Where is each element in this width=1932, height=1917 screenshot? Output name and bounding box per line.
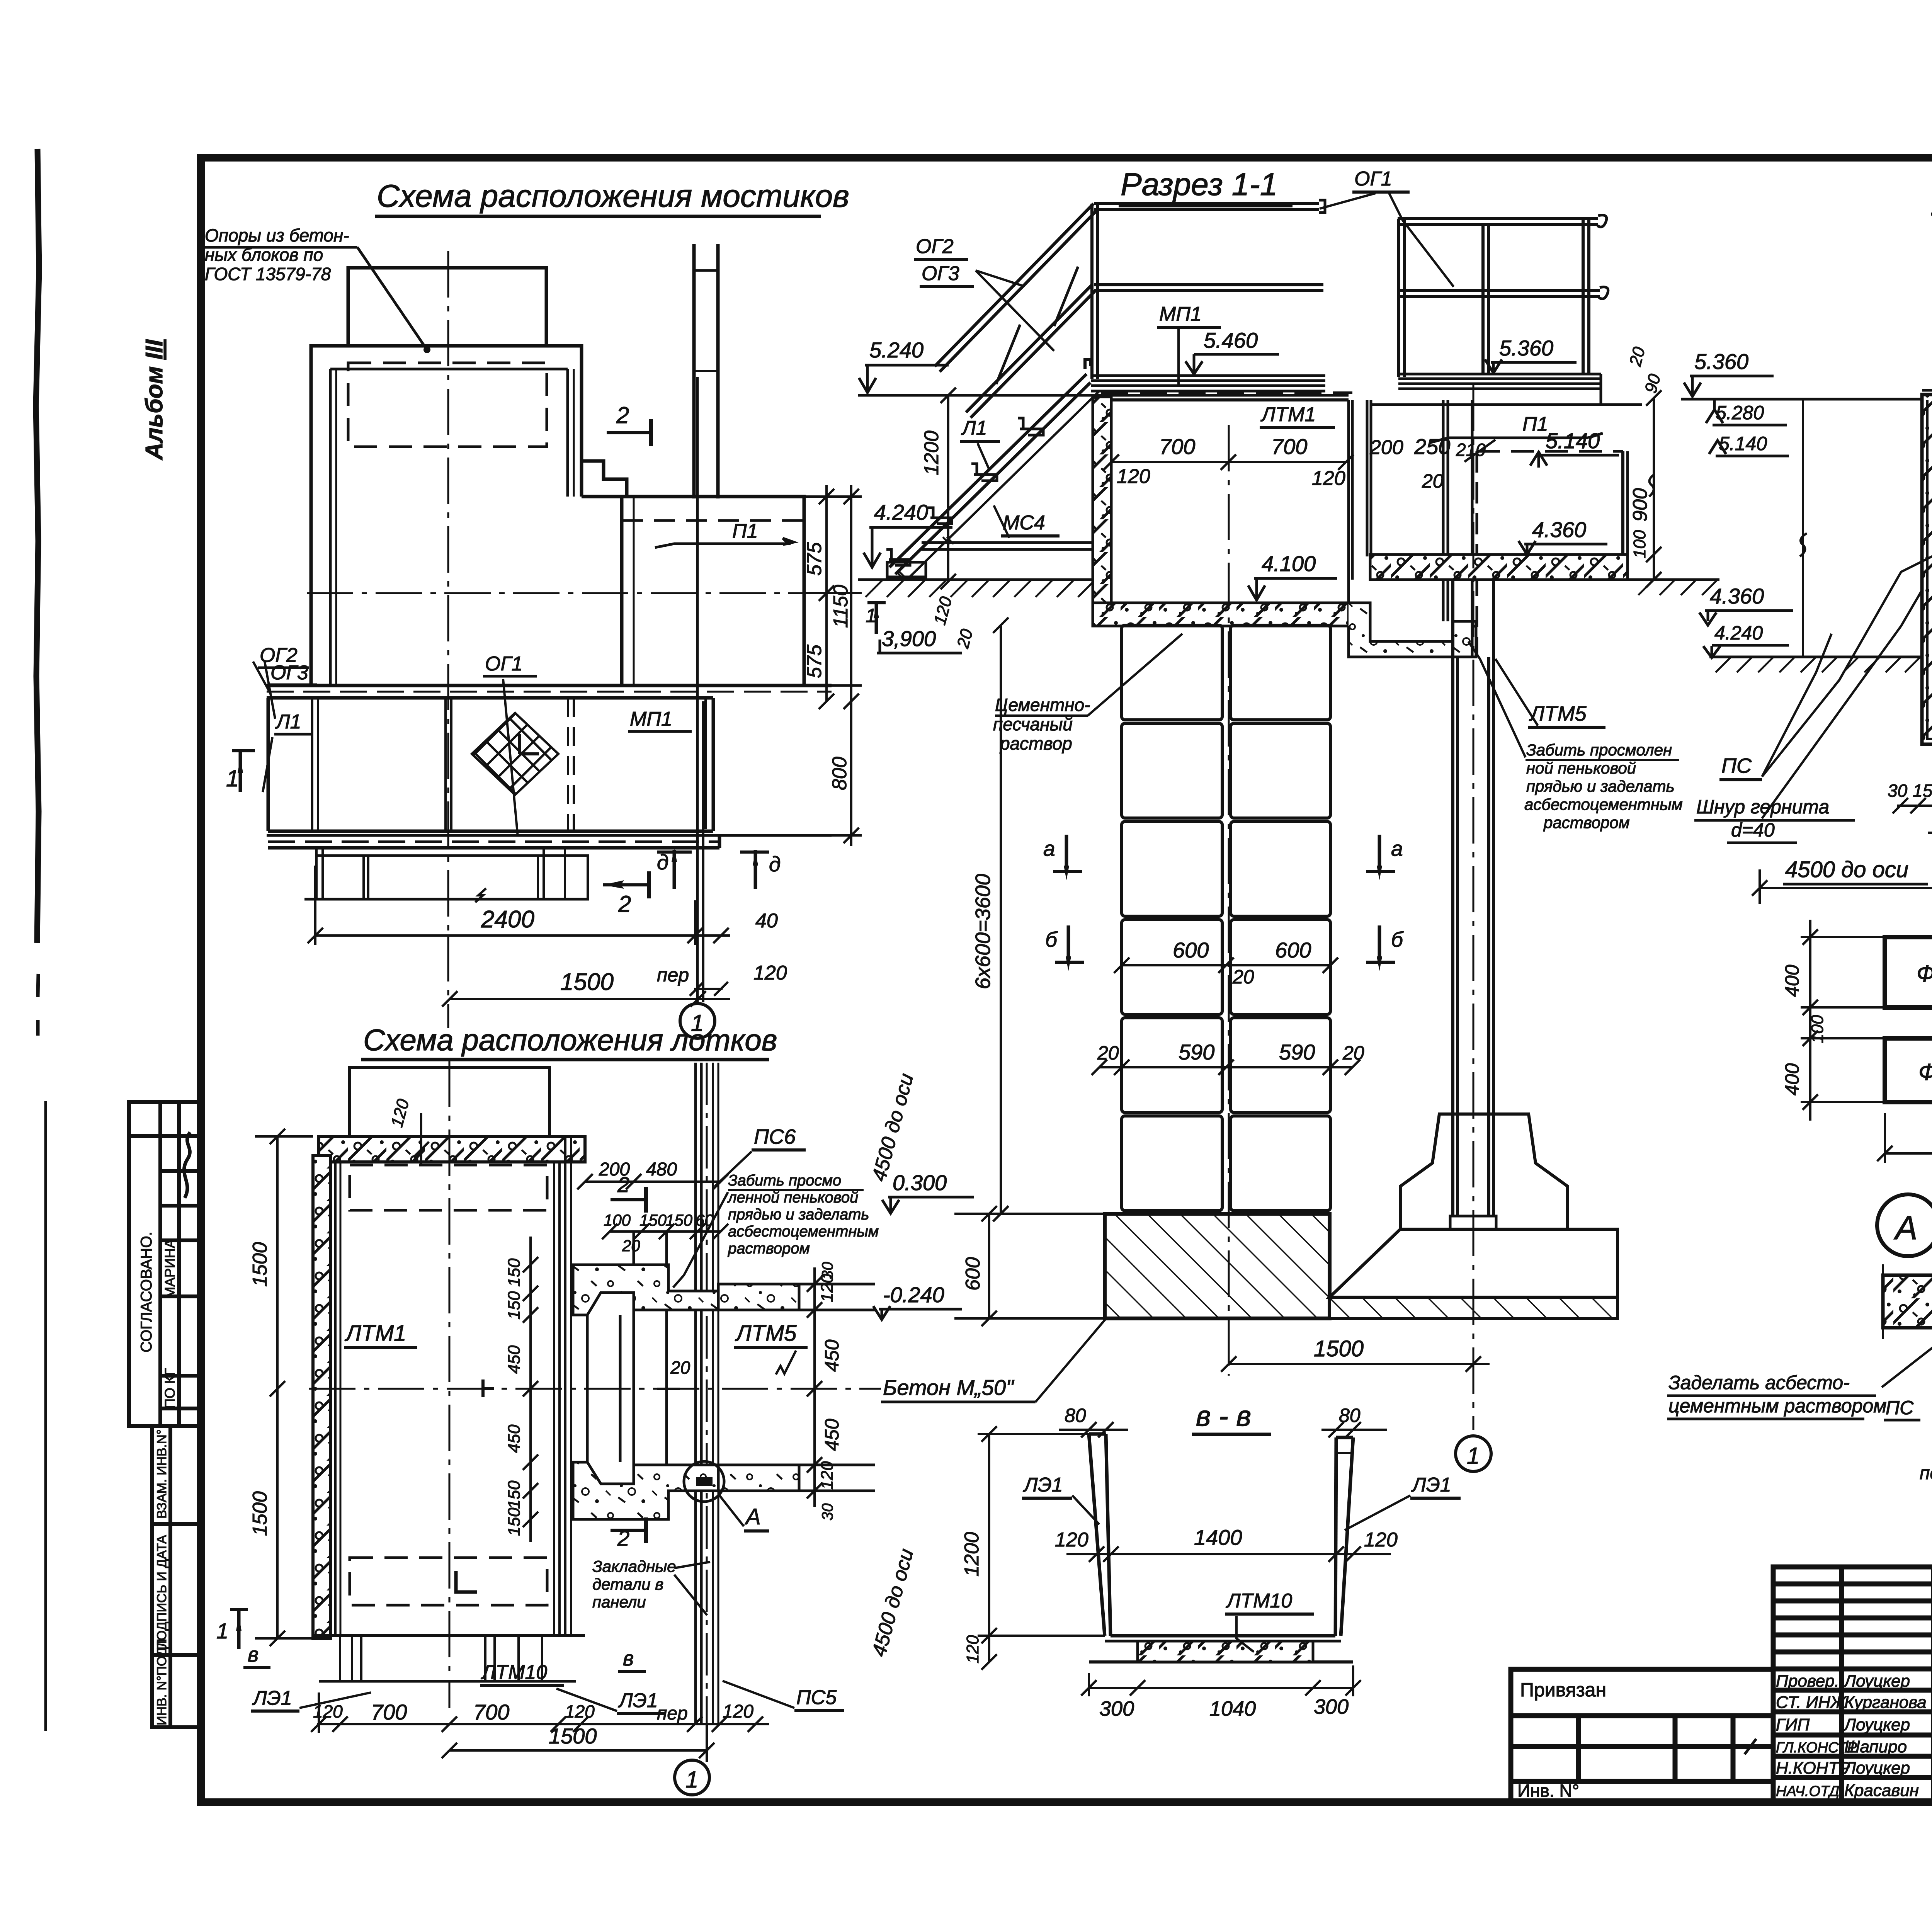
- svg-text:120: 120: [313, 1701, 343, 1721]
- mortar text: [993, 695, 1090, 754]
- top small rect: [350, 1067, 549, 1136]
- svg-text:ОГ3: ОГ3: [270, 662, 308, 684]
- dims top center: [577, 1174, 728, 1239]
- pedestal: [1330, 1114, 1617, 1297]
- P1 platform rect: [622, 497, 804, 685]
- svg-text:ОГ1: ОГ1: [485, 653, 523, 675]
- svg-text:Схема расположения лотков: Схема расположения лотков: [363, 1023, 777, 1057]
- svg-text:4.360: 4.360: [1710, 584, 1764, 608]
- svg-text:150: 150: [665, 1211, 693, 1229]
- svg-text:400: 400: [1781, 1063, 1803, 1095]
- step brackets on stringer: [886, 418, 1043, 565]
- circle 1: [680, 1004, 715, 1038]
- svg-text:П1: П1: [732, 520, 758, 543]
- svg-text:30: 30: [819, 1262, 836, 1279]
- svg-text:575: 575: [803, 644, 826, 678]
- svg-text:цементным раствором: цементным раствором: [1668, 1395, 1887, 1417]
- central channels: [1349, 400, 1477, 657]
- svg-text:1200: 1200: [961, 1532, 983, 1577]
- svg-text:Лоуцкер: Лоуцкер: [1843, 1715, 1910, 1734]
- inner liner: [1927, 400, 1932, 739]
- svg-text:в: в: [623, 1647, 634, 1670]
- svg-text:Красавин: Красавин: [1844, 1781, 1919, 1800]
- small connector between buildings: [582, 461, 627, 497]
- svg-text:СОГЛАСОВАНО.: СОГЛАСОВАНО.: [138, 1232, 155, 1352]
- tank dims: [1104, 454, 1354, 470]
- svg-text:пер: пер: [657, 964, 689, 986]
- center lines: [449, 1061, 451, 1708]
- supports below: [315, 848, 318, 899]
- svg-text:1500: 1500: [549, 1724, 597, 1748]
- svg-text:2: 2: [616, 402, 629, 428]
- svg-text:5.140: 5.140: [1546, 429, 1600, 453]
- left stair railing: [889, 204, 1099, 580]
- svg-text:600: 600: [962, 1257, 984, 1291]
- svg-text:120: 120: [1312, 467, 1345, 490]
- form table upper: [129, 1102, 200, 1426]
- pipe verticals top: [692, 244, 696, 498]
- svg-text:1500: 1500: [249, 1242, 271, 1287]
- svg-text:детали в: детали в: [592, 1575, 663, 1593]
- PS labels: [1762, 549, 1932, 777]
- dims 300 1040 300: [1081, 1665, 1361, 1696]
- svg-text:асбестоцементным: асбестоцементным: [1524, 795, 1683, 813]
- svg-text:80: 80: [1065, 1405, 1086, 1426]
- svg-text:ФБС12. 4.6-Т: ФБС12. 4.6-Т: [1918, 1059, 1932, 1085]
- slab with concrete: [1883, 1275, 1932, 1328]
- svg-text:б: б: [1045, 927, 1058, 951]
- svg-text:б: б: [1391, 927, 1404, 951]
- svg-text:2: 2: [618, 891, 631, 917]
- svg-text:Привязан: Привязан: [1520, 1679, 1606, 1701]
- svg-text:А: А: [1893, 1209, 1917, 1247]
- svg-text:Забить просмо: Забить просмо: [728, 1172, 841, 1189]
- 1200 dim: [988, 1434, 990, 1662]
- svg-text:1: 1: [685, 1767, 698, 1793]
- svg-text:асбестоцементным: асбестоцементным: [728, 1223, 879, 1240]
- svg-text:6х600=3600: 6х600=3600: [971, 874, 995, 989]
- svg-text:ЛЭ1: ЛЭ1: [1023, 1474, 1063, 1496]
- svg-text:в: в: [248, 1643, 259, 1666]
- svg-text:МП1: МП1: [1159, 303, 1202, 325]
- svg-text:Лоуцкер: Лоуцкер: [1843, 1672, 1910, 1691]
- svg-text:150: 150: [505, 1291, 524, 1320]
- svg-text:300: 300: [1099, 1697, 1134, 1720]
- middle band (mostik): [267, 684, 832, 687]
- svg-text:ОГ1: ОГ1: [1354, 168, 1392, 190]
- svg-text:Забить просмолен: Забить просмолен: [1526, 741, 1672, 759]
- svg-text:пер: пер: [1920, 1463, 1932, 1483]
- railing posts: [1931, 214, 1932, 395]
- svg-text:пер: пер: [657, 1703, 688, 1724]
- posts between rails: [996, 325, 1020, 384]
- tank bottom: [313, 1634, 585, 1637]
- svg-text:ОГ3: ОГ3: [922, 262, 959, 285]
- bottom dims: [311, 1692, 769, 1762]
- svg-text:600: 600: [1173, 938, 1209, 962]
- svg-text:а: а: [1043, 837, 1055, 861]
- svg-text:ЛТМ5: ЛТМ5: [735, 1321, 797, 1346]
- svg-text:Л1: Л1: [961, 417, 987, 439]
- circle A: [1877, 1194, 1932, 1256]
- svg-text:Закладные: Закладные: [592, 1557, 676, 1575]
- svg-text:20: 20: [1097, 1042, 1119, 1064]
- svg-text:30: 30: [819, 1504, 836, 1521]
- stair stringer: [889, 374, 1087, 567]
- bottom dim 1180: [1877, 1113, 1932, 1163]
- svg-text:ПС5: ПС5: [796, 1686, 837, 1709]
- 1500 dim bottom: [1221, 1356, 1490, 1372]
- svg-text:0.300: 0.300: [893, 1170, 947, 1195]
- right wall of left tank (double): [553, 1162, 555, 1636]
- svg-text:Цементно-: Цементно-: [995, 695, 1090, 715]
- svg-text:575: 575: [803, 542, 826, 576]
- svg-text:700: 700: [473, 1700, 509, 1724]
- lower room: [267, 698, 270, 831]
- mid rail: [1094, 283, 1323, 286]
- circle 1 bottom: [675, 1760, 709, 1795]
- svg-text:1150: 1150: [830, 585, 852, 628]
- svg-text:150: 150: [1913, 781, 1932, 801]
- upper tank small rect: [348, 268, 546, 346]
- svg-text:120: 120: [753, 962, 787, 984]
- privyazan table: [1511, 1669, 1773, 1801]
- svg-text:450: 450: [505, 1424, 524, 1453]
- svg-text:ной пеньковой: ной пеньковой: [1526, 759, 1636, 777]
- svg-text:700: 700: [371, 1700, 407, 1724]
- svg-text:д: д: [769, 852, 781, 876]
- dims bottom: [308, 866, 730, 1007]
- right platform railing: [1398, 215, 1608, 377]
- bottom band: [267, 834, 832, 837]
- svg-text:раствором: раствором: [728, 1240, 810, 1257]
- svg-text:ЛТМ10: ЛТМ10: [481, 1661, 547, 1684]
- svg-text:д: д: [657, 850, 668, 874]
- svg-text:П1: П1: [1522, 413, 1548, 435]
- svg-text:раствором: раствором: [1543, 813, 1630, 832]
- svg-text:150: 150: [639, 1211, 667, 1229]
- svg-text:ЛТМ1: ЛТМ1: [1260, 403, 1316, 426]
- staff rows: [1773, 1688, 1932, 1693]
- foundation: [1105, 1214, 1330, 1318]
- left thin vertical line lower: [44, 1101, 47, 1731]
- blocks: [1885, 937, 1932, 1007]
- svg-text:4.360: 4.360: [1532, 517, 1586, 542]
- base: [1089, 1660, 1353, 1664]
- svg-text:Шнур гернита: Шнур гернита: [1696, 796, 1829, 818]
- block stack: [1122, 625, 1330, 1211]
- svg-text:СТ. ИНЖ: СТ. ИНЖ: [1776, 1693, 1847, 1712]
- svg-text:Схема расположения мостиков: Схема расположения мостиков: [377, 179, 849, 214]
- svg-text:120: 120: [1364, 1529, 1398, 1551]
- form table lower: [152, 1426, 200, 1727]
- zabit text: [727, 1172, 879, 1257]
- svg-text:Шапиро: Шапиро: [1844, 1737, 1907, 1756]
- svg-text:20: 20: [1342, 1042, 1364, 1064]
- svg-text:1: 1: [216, 1619, 228, 1643]
- 1500 1500 dims left: [255, 1129, 313, 1646]
- bottom dims: [1893, 798, 1932, 840]
- svg-text:590: 590: [1179, 1040, 1214, 1064]
- svg-text:ПС: ПС: [1886, 1397, 1914, 1419]
- svg-text:450: 450: [505, 1345, 524, 1374]
- svg-text:800: 800: [828, 757, 851, 790]
- scanner page edge wobbly line left: [36, 149, 39, 943]
- svg-text:5.240: 5.240: [869, 338, 923, 362]
- bottom slab: [1093, 580, 1453, 658]
- svg-text:Бетон М„50": Бетон М„50": [883, 1375, 1014, 1400]
- svg-text:30: 30: [1888, 781, 1908, 801]
- svg-text:1500: 1500: [249, 1491, 271, 1536]
- svg-text:1500: 1500: [1314, 1336, 1364, 1361]
- thin rows top: [1773, 1582, 1932, 1587]
- top rail left platform: [1094, 202, 1319, 205]
- svg-text:120: 120: [1117, 465, 1150, 488]
- svg-text:20: 20: [670, 1357, 690, 1378]
- svg-text:ГИП: ГИП: [1776, 1715, 1810, 1734]
- svg-text:150: 150: [505, 1258, 524, 1287]
- svg-text:120: 120: [818, 1461, 837, 1490]
- album III vertical text: [141, 339, 168, 461]
- svg-text:А: А: [745, 1504, 761, 1529]
- dims right: [804, 485, 862, 846]
- svg-text:20: 20: [1232, 966, 1254, 988]
- svg-text:120: 120: [565, 1701, 595, 1721]
- tank LTM1: left wall concrete: [1093, 397, 1111, 603]
- signatures squiggles: [1745, 1686, 1932, 1798]
- svg-text:4500 до оси: 4500 до оси: [1785, 857, 1908, 882]
- sheet frame: [201, 158, 1932, 1802]
- svg-text:Разрез 1-1: Разрез 1-1: [1121, 167, 1277, 202]
- right rotated dims: [807, 1267, 822, 1507]
- svg-text:1040: 1040: [1209, 1697, 1256, 1720]
- svg-text:ПОДПИСЬ И ДАТА: ПОДПИСЬ И ДАТА: [155, 1535, 169, 1650]
- svg-text:700: 700: [1271, 434, 1307, 459]
- svg-text:20: 20: [622, 1237, 640, 1255]
- svg-text:100: 100: [1630, 530, 1649, 558]
- svg-text:ЛЭ1: ЛЭ1: [252, 1687, 292, 1709]
- trough walls: [1089, 1434, 1353, 1662]
- svg-text:1500: 1500: [560, 969, 614, 995]
- svg-text:ВЗАМ. ИНВ.N°: ВЗАМ. ИНВ.N°: [155, 1429, 169, 1519]
- svg-text:ПО КГ: ПО КГ: [162, 1368, 178, 1408]
- svg-text:300: 300: [1314, 1695, 1349, 1718]
- svg-text:ЛЭ1: ЛЭ1: [1411, 1474, 1451, 1496]
- svg-text:НАЧ.ОТД: НАЧ.ОТД: [1776, 1783, 1839, 1800]
- svg-text:40: 40: [755, 910, 778, 932]
- svg-text:ленной пеньковой: ленной пеньковой: [727, 1189, 858, 1206]
- svg-text:Опоры из бетон-: Опоры из бетон-: [205, 225, 349, 245]
- dims 120 1400 120: [1066, 1546, 1391, 1562]
- svg-text:200: 200: [1369, 436, 1403, 459]
- svg-text:450: 450: [821, 1419, 843, 1451]
- ground right: [1628, 578, 1719, 581]
- left dims: [1801, 920, 1886, 1121]
- svg-text:600: 600: [1275, 938, 1311, 962]
- dashed inner rects: [350, 1165, 547, 1605]
- note opory: [205, 225, 349, 284]
- right panel PS verticals: [696, 1063, 718, 1723]
- svg-text:Провер.: Провер.: [1776, 1672, 1839, 1691]
- dashed inner rect: [348, 363, 547, 447]
- svg-text:120: 120: [723, 1701, 753, 1722]
- svg-text:4.240: 4.240: [1714, 622, 1763, 644]
- channel concrete U: [1922, 395, 1932, 744]
- svg-text:МП1: МП1: [630, 708, 672, 730]
- svg-text:прядью и заделать: прядью и заделать: [1526, 777, 1675, 795]
- svg-text:60: 60: [696, 1211, 714, 1229]
- svg-text:4.100: 4.100: [1262, 551, 1316, 576]
- supports below tank: [339, 1636, 341, 1681]
- top lintel concrete: [573, 1265, 718, 1315]
- right platform band: [1398, 374, 1601, 405]
- svg-text:1400: 1400: [1194, 1525, 1242, 1550]
- svg-text:-0.240: -0.240: [883, 1283, 944, 1307]
- big outer rect: [311, 346, 582, 685]
- svg-text:1: 1: [226, 765, 239, 791]
- svg-text:900: 900: [1629, 488, 1651, 522]
- svg-text:ЛЭ1: ЛЭ1: [618, 1689, 658, 1712]
- left vertical dim with break: [1802, 399, 1804, 657]
- svg-text:2400: 2400: [481, 906, 534, 933]
- 4500 do osi dims: [1752, 869, 1932, 904]
- svg-text:5.140: 5.140: [1719, 433, 1767, 454]
- svg-text:панели: панели: [592, 1593, 646, 1611]
- svg-text:100: 100: [1808, 1015, 1827, 1043]
- svg-text:100: 100: [604, 1211, 631, 1229]
- svg-text:ИНВ. N°ПОДЛ: ИНВ. N°ПОДЛ: [155, 1639, 169, 1725]
- svg-text:МАРИНА: МАРИНА: [162, 1239, 178, 1298]
- svg-text:а: а: [1391, 837, 1403, 861]
- top wall band concrete: [319, 1136, 585, 1162]
- svg-text:5.460: 5.460: [1204, 328, 1258, 352]
- svg-text:песчаный: песчаный: [993, 714, 1073, 734]
- svg-text:ЛТМ5: ЛТМ5: [1529, 702, 1587, 725]
- ground lines: [1709, 656, 1932, 658]
- centerlines: [447, 251, 449, 935]
- svg-text:700: 700: [1159, 434, 1195, 459]
- svg-text:ЛТМ1: ЛТМ1: [344, 1321, 406, 1346]
- staff table outer: [1773, 1567, 1932, 1801]
- zabit text central: [1524, 741, 1683, 832]
- A detail circle: [684, 1461, 724, 1502]
- svg-text:Лоуцкер: Лоуцкер: [1843, 1759, 1910, 1778]
- svg-text:Инв. N°: Инв. N°: [1517, 1781, 1579, 1801]
- svg-text:ФБС12.4.6-Т: ФБС12.4.6-Т: [1917, 961, 1932, 987]
- svg-text:5.360: 5.360: [1499, 336, 1553, 360]
- svg-text:Заделать асбесто-: Заделать асбесто-: [1668, 1372, 1850, 1393]
- svg-text:ПС: ПС: [1721, 754, 1752, 777]
- svg-text:200: 200: [599, 1159, 630, 1180]
- vertical post at platform left + L profile: [1085, 200, 1325, 379]
- svg-text:Н.КОНТР: Н.КОНТР: [1776, 1759, 1850, 1778]
- svg-text:ЛТМ10: ЛТМ10: [1226, 1590, 1292, 1612]
- svg-text:400: 400: [1781, 964, 1803, 997]
- svg-text:d=40: d=40: [1731, 819, 1775, 841]
- svg-text:20: 20: [1422, 470, 1444, 492]
- svg-text:ПС6: ПС6: [754, 1125, 796, 1148]
- svg-text:5.360: 5.360: [1694, 349, 1748, 374]
- svg-text:МС4: МС4: [1003, 512, 1045, 534]
- ground line + hatch left: [858, 580, 1095, 597]
- stair base plates: [887, 537, 1094, 578]
- svg-text:Л1: Л1: [275, 711, 301, 733]
- right tank: [1477, 450, 1623, 453]
- pipe: [1450, 580, 1496, 1229]
- left rotated dims column: [523, 1237, 538, 1542]
- stack dims: [1092, 958, 1360, 1075]
- left platform floor band: [1091, 376, 1325, 391]
- svg-text:1200: 1200: [920, 430, 943, 475]
- bottom lintel concrete: [573, 1462, 718, 1519]
- svg-text:Курганова: Курганова: [1844, 1693, 1927, 1712]
- 6x600 dim: [1000, 625, 1002, 1214]
- svg-text:150: 150: [505, 1507, 524, 1536]
- svg-text:ОГ2: ОГ2: [916, 235, 954, 258]
- svg-text:1: 1: [1467, 1443, 1480, 1469]
- svg-text:Альбом III: Альбом III: [141, 339, 168, 461]
- svg-text:120: 120: [963, 1635, 982, 1664]
- channels between tank and panel: [587, 1232, 667, 1519]
- svg-text:раствор: раствор: [999, 733, 1072, 754]
- floor: [1111, 1634, 1335, 1638]
- svg-text:450: 450: [821, 1339, 843, 1372]
- svg-text:150: 150: [505, 1480, 524, 1509]
- circle 1: [1456, 1436, 1491, 1471]
- left wall: [313, 1155, 330, 1638]
- svg-text:120: 120: [1055, 1529, 1088, 1551]
- svg-text:480: 480: [646, 1159, 677, 1180]
- hatch diamond: [472, 713, 558, 795]
- svg-text:3,900: 3,900: [882, 626, 936, 651]
- svg-text:4.240: 4.240: [874, 500, 928, 524]
- 1200 dim left: [947, 395, 949, 582]
- svg-text:прядью и заделать: прядью и заделать: [728, 1206, 869, 1223]
- svg-text:5.280: 5.280: [1716, 402, 1764, 424]
- platform bands: [1922, 390, 1932, 437]
- svg-text:590: 590: [1279, 1040, 1315, 1064]
- zakladnye text: [592, 1557, 676, 1611]
- svg-text:ГОСТ 13579-78: ГОСТ 13579-78: [205, 264, 331, 284]
- svg-text:в - в: в - в: [1196, 1400, 1251, 1432]
- centerlines: [1228, 425, 1230, 1376]
